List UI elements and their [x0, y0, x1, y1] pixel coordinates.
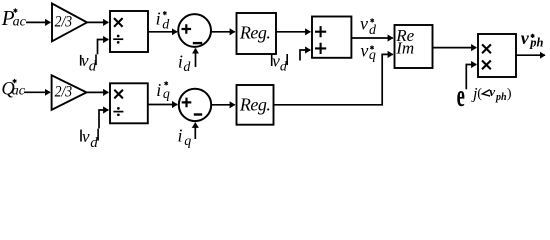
svg-text:q: q [163, 87, 170, 102]
svg-text:Reg.: Reg. [239, 94, 270, 114]
svg-text:v: v [360, 41, 368, 61]
svg-text:v: v [81, 51, 89, 70]
svg-text:ac: ac [13, 14, 27, 29]
svg-text:Reg.: Reg. [239, 23, 270, 43]
svg-text:i: i [156, 80, 161, 100]
svg-text:v: v [82, 127, 90, 146]
svg-text:e: e [457, 78, 465, 113]
svg-text:): ) [507, 87, 512, 102]
svg-text:2/3: 2/3 [55, 84, 73, 101]
svg-text:d: d [162, 17, 170, 32]
svg-text:d: d [369, 23, 377, 38]
svg-text:ph: ph [529, 35, 543, 49]
svg-text:q: q [369, 48, 376, 63]
svg-text:ac: ac [12, 84, 26, 99]
svg-text:v: v [521, 28, 530, 48]
svg-text:v: v [360, 13, 368, 33]
svg-text:d: d [183, 60, 191, 75]
svg-text:2/3: 2/3 [55, 14, 73, 31]
svg-text:Im: Im [395, 38, 414, 57]
svg-text:q: q [184, 134, 191, 149]
svg-text:i: i [178, 125, 183, 145]
svg-text:i: i [156, 9, 161, 29]
svg-text:v: v [489, 84, 495, 99]
svg-text:ph: ph [495, 92, 507, 103]
svg-text:d: d [90, 135, 98, 151]
svg-text:i: i [178, 52, 183, 72]
